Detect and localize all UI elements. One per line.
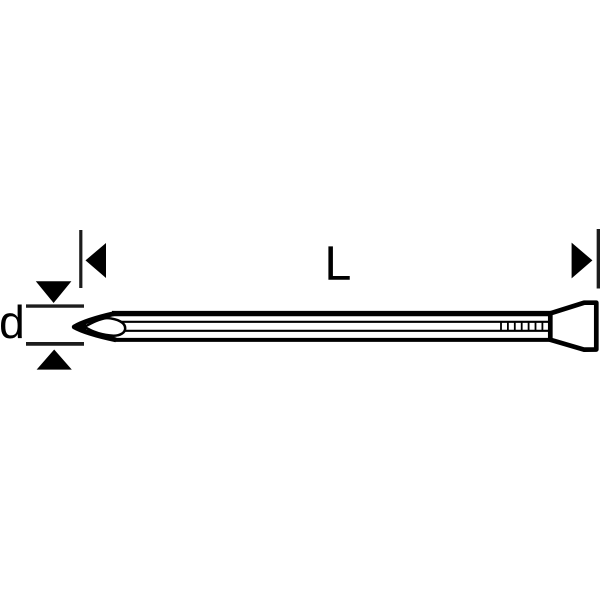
nail tip outline (74, 314, 116, 340)
shank grip mark 2 (507, 322, 509, 331)
d dimension: bottom extension line (26, 342, 84, 346)
shank grip mark 4 (521, 322, 523, 331)
L label (328, 246, 349, 279)
nail shank bottom edge (114, 338, 552, 342)
tip apex solid fill (76, 324, 86, 330)
shank grip mark 1 (500, 322, 502, 331)
shank grip mark 7 (541, 322, 543, 331)
shank grip mark 5 (528, 322, 530, 331)
nail shank top edge (112, 311, 552, 316)
shank inner bottom line (120, 330, 549, 332)
shank grip mark 6 (535, 322, 537, 331)
L dimension: right arrowhead (572, 243, 593, 279)
d label (1, 305, 22, 339)
shank inner top line (120, 321, 549, 323)
tip facet (85, 318, 126, 336)
nail head (550, 303, 596, 350)
shank grip mark 3 (514, 322, 516, 331)
L dimension: left arrowhead (86, 243, 107, 278)
L dimension: left extension line (79, 230, 82, 288)
d dimension: up arrowhead (37, 350, 72, 370)
L dimension: right extension line (597, 229, 600, 289)
d dimension: top extension line (26, 304, 84, 307)
d dimension: down arrowhead (36, 281, 72, 303)
